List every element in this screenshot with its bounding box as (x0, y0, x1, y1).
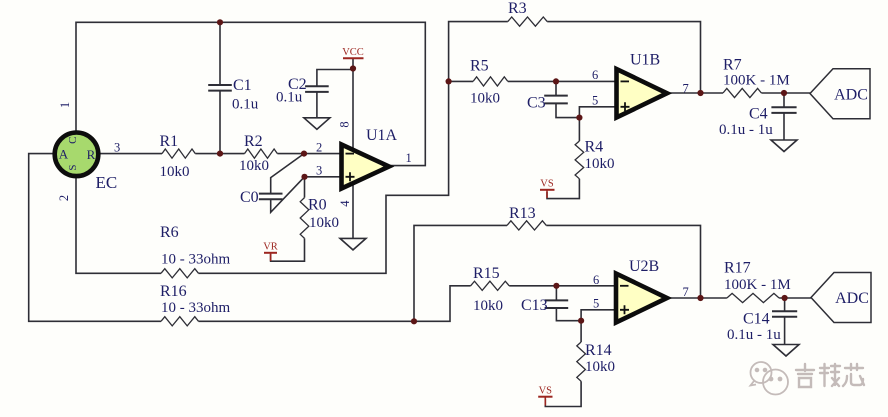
capacitor C4 (771, 107, 796, 113)
node 3 (301, 151, 307, 157)
svg-text:R13: R13 (509, 205, 536, 222)
svg-text:VS: VS (539, 386, 553, 397)
wire: R14 top lead (580, 321, 582, 342)
wire: U1B output to R7 (667, 92, 723, 94)
wire: R0 bottom to VR (271, 238, 305, 261)
wire: VCC rail into U1A pin 8 (352, 59, 354, 150)
power VCC (343, 57, 364, 59)
resistor R16 (161, 317, 199, 326)
op-amp U2B (616, 274, 667, 323)
svg-text:R14: R14 (585, 342, 612, 359)
svg-text:10k0: 10k0 (585, 156, 615, 172)
capacitor C14 (772, 311, 797, 317)
wire: C14 bottom lead to ground (784, 317, 786, 345)
resistor R13 (507, 221, 546, 230)
node 15 (782, 295, 788, 301)
wire: C4 top lead (783, 93, 785, 107)
svg-text:C0: C0 (240, 189, 259, 206)
svg-text:0.1u: 0.1u (232, 97, 259, 113)
power VS (lower) (538, 396, 552, 398)
node 12 (553, 283, 559, 289)
watermark text 诺联芯 (796, 364, 864, 387)
svg-text:R4: R4 (585, 139, 604, 156)
wire: EC pin1 up, along top, down to U1A output pin 1 (76, 22, 425, 165)
wire: U2B output to R17 (667, 297, 727, 299)
node 11 (411, 318, 417, 324)
wire: node to R5 (449, 80, 474, 82)
resistor R2 (245, 149, 278, 158)
svg-text:VCC: VCC (342, 47, 364, 58)
svg-text:10k0: 10k0 (160, 164, 190, 180)
wire: EC left pin down left side to R16 (29, 154, 161, 322)
wire: C0 upper diagonal lead from pin2 node (271, 154, 304, 194)
svg-text:2: 2 (57, 195, 71, 201)
ground (C2) (304, 118, 330, 130)
ground (U1A pin4) (340, 238, 366, 250)
resistor R5 (473, 77, 508, 86)
wire: C3 top lead (555, 81, 557, 95)
node 9 (697, 90, 703, 96)
resistor R17 (727, 293, 779, 302)
node 5 (350, 65, 356, 71)
svg-text:C1: C1 (233, 77, 252, 94)
svg-text:10k0: 10k0 (585, 359, 615, 375)
wire: R1 to R2 (195, 153, 244, 155)
watermark logo bubbles (751, 362, 789, 395)
wire: U1A pin 4 to ground (352, 183, 354, 238)
svg-text:3: 3 (316, 164, 322, 178)
svg-text:R1: R1 (160, 133, 179, 150)
svg-text:VR: VR (263, 242, 278, 253)
node 7 (553, 78, 559, 84)
svg-text:4: 4 (338, 200, 352, 207)
wire: R4 top lead (578, 118, 580, 141)
ADC port (upper) (810, 69, 870, 119)
wire: C2 top lead from VCC node (317, 70, 353, 87)
wire: EC pin3 to R1 (99, 153, 163, 155)
svg-text:1: 1 (58, 102, 72, 108)
svg-text:10 - 33ohm: 10 - 33ohm (161, 300, 230, 316)
svg-text:6: 6 (593, 273, 599, 287)
node 10 (781, 90, 787, 96)
svg-text:R6: R6 (160, 224, 179, 241)
wire: C14 top lead (784, 298, 786, 311)
wire: C1 top lead from top rail (219, 22, 221, 85)
resistor R0 (300, 198, 309, 239)
svg-text:0.1u - 1u: 0.1u - 1u (727, 327, 781, 343)
wire: R14 bottom to VS (545, 381, 581, 406)
svg-text:R16: R16 (160, 283, 187, 300)
wire: R13 to U2B output node (546, 225, 700, 298)
op-amp U1A (342, 145, 390, 189)
svg-text:R5: R5 (470, 58, 489, 75)
capacitor C3 (544, 96, 568, 104)
node 1 (217, 19, 223, 25)
svg-text:U1B: U1B (630, 52, 660, 69)
svg-text:7: 7 (683, 82, 689, 96)
op-amp U1B (617, 69, 668, 118)
svg-text:ADC: ADC (835, 290, 869, 307)
svg-text:R15: R15 (473, 265, 500, 282)
svg-text:R0: R0 (308, 197, 327, 214)
wire: R7 to ADC (761, 92, 810, 94)
power VS (upper) (540, 189, 555, 191)
wire: EC pin2 via R6 up to R5/R3 node (76, 178, 161, 274)
svg-text:U2B: U2B (629, 258, 659, 275)
node 2 (217, 151, 223, 157)
svg-text:5: 5 (592, 94, 598, 108)
resistor R15 (471, 281, 510, 290)
resistor R3 (508, 17, 547, 26)
svg-text:R7: R7 (723, 57, 742, 74)
svg-text:C: C (67, 137, 79, 144)
resistor R14 (577, 342, 586, 381)
svg-text:5: 5 (593, 297, 599, 311)
EC electrochemical sensor (55, 133, 99, 177)
svg-text:0.1u: 0.1u (276, 90, 303, 106)
svg-text:R: R (87, 147, 96, 162)
svg-text:10k0: 10k0 (473, 298, 503, 314)
svg-text:R17: R17 (724, 260, 751, 277)
svg-text:8: 8 (338, 121, 352, 127)
svg-text:1: 1 (406, 151, 412, 165)
svg-text:0.1u - 1u: 0.1u - 1u (719, 122, 773, 138)
svg-text:R2: R2 (244, 133, 263, 150)
svg-text:100K - 1M: 100K - 1M (724, 277, 791, 293)
svg-text:C4: C4 (749, 106, 768, 123)
wire: R17 to ADC (779, 297, 811, 299)
ADC port (lower) (811, 273, 871, 323)
node 13 (578, 318, 584, 324)
wire: R6 right, up, over to inverting node (199, 81, 449, 273)
svg-text:2: 2 (316, 141, 322, 155)
wire: C3 bottom lead to pin5 node (556, 103, 617, 117)
wire: R5 to U1B pin 6 (508, 80, 617, 82)
svg-text:10k0: 10k0 (470, 91, 500, 107)
svg-text:10k0: 10k0 (309, 215, 339, 231)
wire: C4 bottom lead to ground (783, 113, 785, 140)
wire: C2 bottom lead to ground (316, 92, 318, 118)
wire: C13 bottom lead to pin5 node (556, 308, 616, 321)
wire: C0 lower diagonal lead to pin3 node (271, 177, 305, 213)
wire: R13 feedback loop left (414, 225, 507, 321)
svg-text:VS: VS (540, 179, 554, 190)
wire: C13 top lead (555, 286, 557, 301)
svg-text:ADC: ADC (834, 87, 868, 104)
resistor R7 (723, 88, 761, 97)
wire: U1A pin3 lead (305, 176, 342, 178)
node 4 (301, 174, 307, 180)
svg-text:10 - 33ohm: 10 - 33ohm (161, 252, 230, 268)
resistor R6 (161, 269, 199, 278)
svg-text:R3: R3 (508, 0, 527, 17)
svg-text:100K - 1M: 100K - 1M (723, 73, 790, 89)
svg-text:C13: C13 (521, 297, 548, 314)
svg-text:C3: C3 (527, 95, 546, 112)
capacitor C2 (305, 86, 329, 92)
wire: R3 to U1B output node (547, 22, 700, 93)
node 6 (446, 78, 452, 84)
svg-text:6: 6 (592, 68, 598, 82)
svg-text:10k0: 10k0 (239, 158, 269, 174)
capacitor C13 (545, 300, 569, 308)
svg-text:3: 3 (114, 141, 120, 155)
wire: R15 to U2B pin 6 (509, 285, 616, 287)
wire: R16 right to R15 branch (199, 286, 471, 322)
wire: R2 to U1A pin2 (277, 153, 341, 155)
ground (C14) (773, 345, 799, 357)
wire: C1 bottom lead to R1/R2 node (219, 91, 221, 154)
resistor R4 (575, 141, 584, 179)
resistor R1 (162, 149, 195, 158)
svg-text:7: 7 (683, 285, 689, 299)
capacitor C0 (259, 194, 283, 200)
power VR (264, 252, 277, 254)
ground (C4) (771, 140, 797, 152)
svg-text:C14: C14 (743, 311, 770, 328)
svg-text:A: A (59, 147, 69, 162)
svg-text:U1A: U1A (366, 127, 398, 144)
node 8 (576, 115, 582, 121)
node 14 (697, 295, 703, 301)
svg-text:S: S (67, 164, 79, 170)
wire: R0 top lead (304, 177, 306, 198)
capacitor C1 (208, 85, 232, 91)
wire: R4 bottom to VS (547, 179, 579, 199)
wire: R3 feedback loop left/top (449, 22, 508, 82)
svg-text:EC: EC (96, 173, 118, 192)
